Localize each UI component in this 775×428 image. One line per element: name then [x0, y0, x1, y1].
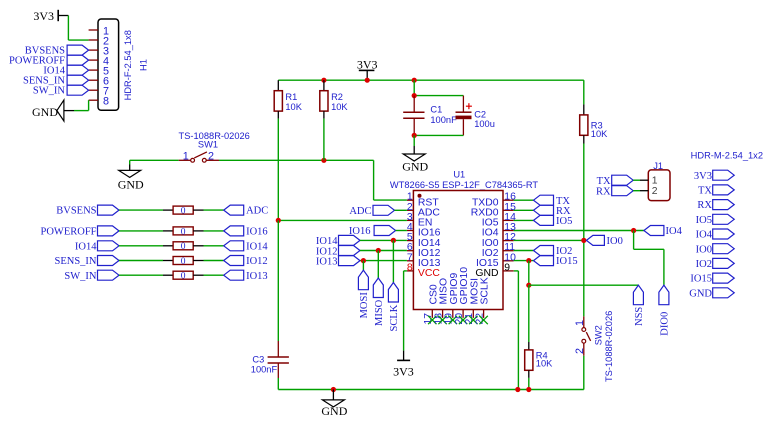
no-connect X pin 20 — [459, 316, 467, 324]
svg-text:100u: 100u — [474, 119, 495, 129]
wire R2 to SW1 net — [323, 119, 325, 161]
wire IO12 to pin 6 — [360, 250, 407, 252]
svg-text:TX: TX — [698, 186, 712, 197]
wire GND rail — [278, 389, 584, 391]
svg-text:GND: GND — [689, 288, 712, 299]
label IO14 (row) — [224, 241, 244, 251]
svg-text:22: 22 — [474, 313, 485, 325]
svg-text:TX: TX — [597, 176, 611, 187]
wire to IO14 — [204, 245, 224, 247]
U1 pin 10 IO15 — [503, 260, 514, 262]
U1 pin 1 RST — [407, 199, 414, 201]
wire VCC pin 8 to 3V3 — [404, 270, 407, 272]
capacitor C2 100u (polarized) — [462, 96, 464, 113]
junction IO15 branch — [526, 258, 531, 263]
wire 3V3 rail — [278, 79, 584, 81]
wire BVSENS row — [119, 209, 163, 211]
junction C1 bottom — [412, 133, 417, 138]
svg-text:BVSENS: BVSENS — [56, 206, 96, 217]
label ADC (row) — [224, 205, 244, 215]
wire R3 to IO0/SW2 — [583, 144, 585, 317]
wire IO4 to DIO0 — [633, 231, 635, 250]
wire GND pin 9 down — [514, 270, 519, 272]
resistor R3 10K — [583, 80, 585, 104]
resistor 0 ohm (SENS_IN to IO12) — [173, 257, 193, 265]
junction MOSI tap — [361, 258, 366, 263]
wire IO4 (U1 pin 13) — [514, 230, 644, 232]
svg-text:1: 1 — [574, 320, 586, 326]
svg-text:10K: 10K — [331, 102, 348, 112]
resistor R1 10K — [277, 80, 279, 91]
label IO13 (row) — [224, 270, 244, 280]
svg-text:VCC: VCC — [418, 268, 440, 279]
junction IO4 branch — [631, 228, 636, 233]
svg-text:MISO: MISO — [374, 299, 385, 326]
U1 pin 8 VCC — [407, 270, 414, 272]
label IO15 — [534, 256, 554, 266]
svg-text:RX: RX — [697, 200, 712, 211]
svg-text:IO4: IO4 — [696, 230, 713, 241]
svg-text:IO15: IO15 — [556, 256, 578, 267]
wire R4 to GND rail — [528, 378, 530, 390]
U1 pin 13 IO4 — [503, 230, 514, 232]
resistor 0 ohm (SW_IN to IO13) — [173, 271, 193, 279]
ground GND (C1) — [413, 135, 415, 146]
wire IO15 (U1 pin 10) — [514, 260, 534, 262]
svg-text:GND: GND — [402, 159, 428, 173]
wire IO13 to pin 7 — [360, 260, 407, 262]
svg-text:IO13: IO13 — [246, 271, 268, 282]
wire GND to SW1 pin1 — [130, 159, 179, 161]
svg-text:HDR-F-2.54_1x8: HDR-F-2.54_1x8 — [123, 30, 133, 100]
wire IO0 (U1 pin 12) — [514, 239, 587, 241]
wire IO16 to pin 4 — [396, 230, 407, 232]
svg-text:IO14: IO14 — [246, 241, 268, 252]
svg-text:IO0: IO0 — [696, 244, 712, 255]
wire RX to J1 — [633, 190, 640, 192]
svg-text:IO2: IO2 — [696, 259, 712, 270]
svg-text:0: 0 — [181, 272, 186, 282]
ground GND (SW1) — [129, 160, 131, 164]
wire to SCLK label — [392, 240, 394, 282]
label RX (U1 pin 15) — [514, 209, 534, 211]
wire R1 to EN — [277, 119, 279, 221]
U1 pin 22 SCLK — [483, 310, 485, 318]
power symbol 3V3 (bottom, inverted) — [403, 351, 405, 361]
resistor 0 ohm (POWEROFF to IO16) — [173, 227, 193, 235]
U1 pin 11 IO2 — [503, 250, 514, 252]
svg-text:GND: GND — [32, 105, 58, 119]
wire to IO16 — [204, 230, 224, 232]
wire 3V3 to C1/C2 — [413, 80, 415, 95]
wire to ADC — [204, 209, 224, 211]
resistor R4 10K — [528, 342, 530, 350]
U1 pin 17 CS0 — [431, 310, 433, 318]
junction SCLK tap — [391, 238, 396, 243]
svg-text:C2: C2 — [474, 110, 486, 120]
svg-text:SW1: SW1 — [198, 139, 218, 149]
no-connect X pin 21 — [469, 316, 477, 324]
no-connect X pin 17 — [428, 316, 436, 324]
svg-text:MOSI: MOSI — [359, 292, 370, 319]
U1 pin 6 IO12 — [407, 250, 414, 252]
svg-text:100nF: 100nF — [251, 365, 278, 375]
U1 pin 21 MOSI — [472, 310, 474, 318]
svg-text:10K: 10K — [285, 102, 302, 112]
wire 3V3 to H1 pin 2 — [67, 16, 69, 41]
svg-text:IO12: IO12 — [246, 256, 268, 267]
U1 pin 15 RXD0 — [503, 209, 514, 211]
svg-text:C3: C3 — [252, 355, 264, 365]
svg-text:SW_IN: SW_IN — [33, 86, 65, 97]
wire C3 to GND rail — [277, 378, 279, 390]
svg-text:100nF: 100nF — [430, 115, 457, 125]
ground GND (bottom rail) — [332, 390, 334, 400]
label MOSI (vertical) — [358, 270, 368, 290]
junction MISO tap — [376, 248, 381, 253]
no-connect X pin 22 — [479, 316, 487, 324]
svg-text:R2: R2 — [331, 92, 343, 102]
label SCLK (vertical) — [388, 283, 398, 303]
svg-text:IO15: IO15 — [690, 274, 712, 285]
connector H1 — [98, 19, 119, 110]
U1 pin 7 IO13 — [407, 260, 414, 262]
wire NSS — [529, 284, 639, 286]
junction 3V3 stem — [365, 78, 370, 83]
U1 pin 4 IO16 — [407, 230, 414, 232]
wire IO15 to R4 — [528, 285, 530, 342]
svg-text:1: 1 — [652, 175, 658, 186]
svg-text:U1: U1 — [453, 169, 465, 179]
svg-text:SCLK: SCLK — [389, 304, 400, 331]
no-connect X pin 18 — [438, 316, 446, 324]
label IO16 (row) — [224, 226, 244, 236]
svg-text:3V3: 3V3 — [694, 171, 712, 182]
wire EN from R1 — [278, 219, 407, 221]
label IO0 — [586, 235, 604, 245]
label TX (U1 pin 16) — [514, 199, 534, 201]
svg-text:0: 0 — [181, 227, 186, 237]
svg-text:SENS_IN: SENS_IN — [54, 256, 96, 267]
svg-text:IO13: IO13 — [316, 256, 338, 267]
wire IO15 down — [528, 261, 530, 286]
svg-text:IO0: IO0 — [607, 236, 623, 247]
U1 pin 16 TXD0 — [503, 199, 514, 201]
svg-text:9: 9 — [504, 262, 510, 273]
svg-text:8: 8 — [407, 262, 413, 273]
svg-text:2: 2 — [574, 348, 586, 354]
label IO2 (U1 pin 11) — [514, 250, 534, 252]
svg-text:IO5: IO5 — [696, 215, 712, 226]
svg-text:8: 8 — [103, 96, 109, 108]
junction R2/SW1 — [321, 158, 326, 163]
svg-text:HDR-M-2.54_1x2: HDR-M-2.54_1x2 — [691, 151, 763, 161]
wire IO14 to pin 5 — [360, 239, 407, 241]
svg-text:3V3: 3V3 — [33, 9, 54, 23]
junction R2 top — [321, 78, 326, 83]
junction IO0/R3 — [581, 238, 586, 243]
wire to MISO label — [377, 251, 379, 279]
wire SW_IN row — [119, 274, 163, 276]
U1 pin 19 GPIO9 — [452, 310, 454, 318]
svg-text:R1: R1 — [285, 92, 297, 102]
junction C1 top — [412, 93, 417, 98]
svg-text:WT8266-S5 ESP-12F_C784365-RT: WT8266-S5 ESP-12F_C784365-RT — [390, 180, 538, 190]
svg-text:GND: GND — [118, 177, 144, 191]
U1 pin 18 MISO — [442, 310, 444, 318]
U1 pin 5 IO14 — [407, 240, 414, 242]
svg-text:NSS: NSS — [634, 307, 645, 326]
label IO4 — [644, 226, 664, 236]
switch SW2 TS-1088R-02026 — [583, 316, 585, 327]
wire to MOSI label — [362, 261, 364, 271]
svg-text:H1: H1 — [138, 59, 148, 71]
svg-text:3V3: 3V3 — [393, 364, 414, 378]
junction C1 branch — [412, 78, 417, 83]
svg-text:0: 0 — [181, 242, 186, 252]
label IO12 (row) — [224, 256, 244, 266]
svg-text:SW_IN: SW_IN — [64, 271, 96, 282]
wire EN to C3 — [277, 220, 279, 341]
svg-text:IO16: IO16 — [246, 227, 268, 238]
svg-text:0: 0 — [181, 257, 186, 267]
resistor R2 10K — [323, 80, 325, 91]
svg-text:POWEROFF: POWEROFF — [40, 227, 96, 238]
wire to IO12 — [204, 260, 224, 262]
svg-text:DIO0: DIO0 — [660, 312, 671, 336]
wire SENS_IN row — [119, 260, 163, 262]
U1 pin 3 EN — [407, 219, 414, 221]
svg-text:TS-1088R-02026: TS-1088R-02026 — [604, 311, 614, 382]
svg-text:IO4: IO4 — [666, 226, 683, 237]
svg-text:C1: C1 — [430, 104, 442, 114]
wire SW1 pin2 to RST net — [219, 159, 374, 161]
svg-text:SCLK: SCLK — [480, 277, 491, 304]
junction GND pin9 rail — [515, 387, 520, 392]
resistor 0 ohm (IO14 to IO14) — [173, 242, 193, 250]
resistor 0 ohm (BVSENS to ADC) — [173, 206, 193, 214]
svg-text:ADC: ADC — [349, 206, 371, 217]
svg-text:10K: 10K — [536, 359, 553, 369]
wire POWEROFF row — [119, 230, 163, 232]
capacitor C3 100nF — [277, 341, 279, 357]
svg-text:IO5: IO5 — [556, 216, 572, 227]
svg-text:ADC: ADC — [246, 206, 268, 217]
svg-text:3V3: 3V3 — [357, 58, 378, 72]
junction EN — [276, 218, 281, 223]
label DIO0 (vertical) — [659, 285, 669, 305]
svg-text:RX: RX — [596, 186, 611, 197]
U1 pin 2 ADC — [407, 209, 414, 211]
label NSS (vertical) — [633, 285, 643, 305]
svg-text:0: 0 — [181, 207, 186, 217]
junction NSS branch — [526, 283, 531, 288]
U1 pin 20 GPIO10 — [462, 310, 464, 318]
junction GND symbol — [331, 387, 336, 392]
wire H1 pin8 to GND — [74, 110, 89, 112]
svg-text:10K: 10K — [591, 129, 608, 139]
wire C1/C2 bottom — [414, 134, 463, 136]
no-connect X pin 19 — [449, 316, 457, 324]
U1 pin 12 IO0 — [503, 240, 514, 242]
svg-text:GND: GND — [321, 404, 347, 418]
wire SW2 to GND rail — [583, 356, 585, 390]
wire TX to J1 — [633, 179, 640, 181]
svg-text:SW2: SW2 — [594, 325, 604, 345]
U1 pin 14 IO5 — [503, 219, 514, 221]
capacitor C1 100nF — [413, 96, 415, 113]
U1 pin 9 GND — [503, 270, 514, 272]
wire ADC to pin 2 — [395, 209, 407, 211]
wire IO14 row — [119, 245, 163, 247]
svg-text:IO14: IO14 — [75, 241, 97, 252]
label MISO (vertical) — [373, 278, 383, 298]
svg-text:2: 2 — [652, 186, 658, 197]
label IO5 (U1 pin 14) — [514, 219, 534, 221]
wire to IO13 — [204, 274, 224, 276]
junction R4 rail — [526, 387, 531, 392]
